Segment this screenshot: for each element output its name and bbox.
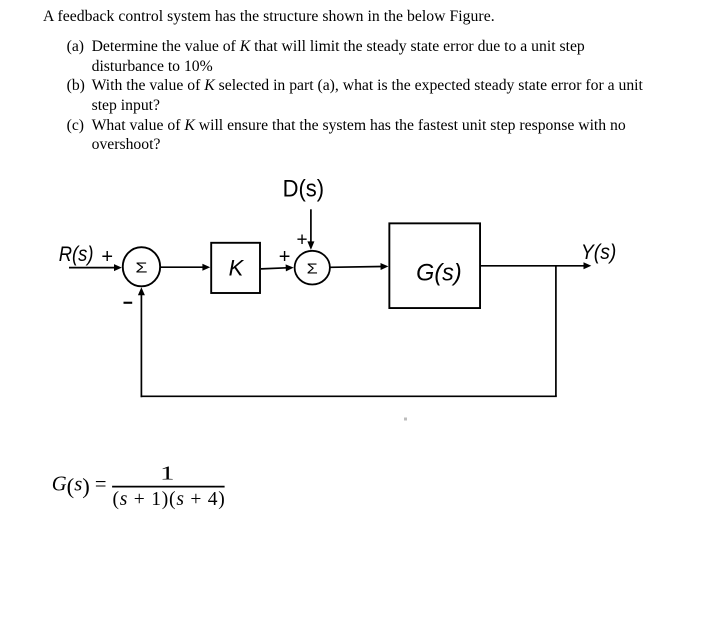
item (a) line 2 (92, 59, 213, 75)
plus sign at R(s) input (101, 246, 113, 268)
svg-text:+: + (101, 246, 113, 268)
item (b) line 2 (92, 98, 160, 114)
block G(s) (389, 223, 480, 308)
svg-text:Σ: Σ (135, 259, 147, 276)
svg-text:G(s) =: G(s) = (52, 474, 107, 499)
plus sign above left of U2 (D input) (297, 229, 308, 250)
formula G(s)= (52, 474, 107, 499)
svg-text:Σ: Σ (307, 260, 318, 277)
svg-text:1: 1 (160, 463, 174, 485)
svg-text:+: + (279, 246, 291, 268)
node D(s) label (283, 175, 325, 202)
wire U1 to block K (161, 264, 210, 271)
wire block K to summing junction U2 (261, 264, 294, 271)
item (a) label (67, 39, 84, 55)
node Y(s) label (581, 241, 617, 264)
wire R(s) into summing junction U1 (69, 264, 122, 271)
problem statement line 1 (43, 9, 495, 25)
svg-text:(s + 1)(s + 4): (s + 1)(s + 4) (113, 489, 225, 510)
svg-text:K: K (229, 255, 245, 280)
svg-text:Y(s): Y(s) (581, 241, 617, 264)
formula denominator (s+1)(s+4) (113, 489, 225, 510)
node R(s) label (59, 243, 94, 266)
item (b) line 1 (92, 78, 643, 94)
summing junction U1 (123, 247, 160, 286)
item (c) label (67, 118, 84, 134)
svg-text:R(s): R(s) (59, 243, 94, 266)
feedback wire: up into U1 (138, 287, 145, 397)
block K (211, 243, 260, 293)
wire D(s) down into summing junction U2 (307, 209, 314, 250)
minus sign on feedback input of U1 (124, 302, 133, 304)
plus sign left of U2 (K input) (279, 246, 291, 268)
item (a) line 1 (92, 39, 585, 55)
wire G(s) to output Y(s) (481, 262, 591, 269)
summing junction U2 (295, 251, 330, 285)
stray dot artifact (404, 418, 407, 421)
item (c) line 1 (92, 118, 626, 134)
svg-text:+: + (297, 229, 308, 250)
item (b) label (67, 78, 85, 94)
formula numerator 1 (160, 463, 174, 485)
svg-text:G(s): G(s) (416, 259, 462, 286)
formula fraction bar (112, 486, 225, 488)
feedback wire: down from output tap (555, 266, 557, 397)
wire U2 to block G(s) (330, 263, 389, 270)
item (c) line 2 (92, 137, 161, 153)
feedback wire: bottom run (141, 395, 557, 397)
svg-text:D(s): D(s) (283, 175, 325, 202)
